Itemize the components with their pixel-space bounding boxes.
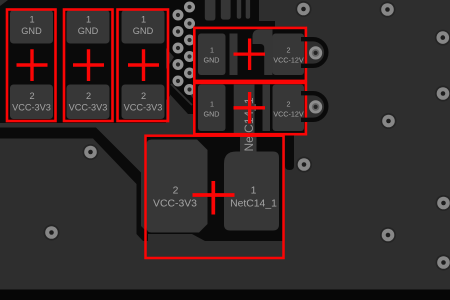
svg-text:2: 2 bbox=[141, 91, 146, 101]
via cluster column B bbox=[184, 2, 195, 96]
svg-text:1: 1 bbox=[210, 100, 214, 109]
origin cross C2 bbox=[73, 49, 104, 81]
svg-text:1: 1 bbox=[251, 186, 257, 197]
clearance void: central footprint C14 backdrop bbox=[145, 135, 284, 242]
via bbox=[296, 157, 312, 173]
connector J1-A pad 1 GND bbox=[198, 34, 226, 76]
courtyard C2 bbox=[64, 10, 113, 122]
trace NetC14_1 (J1 bottom to C14) bbox=[234, 85, 255, 134]
via bbox=[380, 2, 396, 18]
connector pin stub 4 bbox=[246, 0, 250, 19]
connector pin stub 2 bbox=[221, 0, 231, 20]
origin cross C14 bbox=[193, 181, 235, 215]
svg-text:GND: GND bbox=[133, 26, 154, 36]
svg-text:1: 1 bbox=[210, 46, 214, 55]
trace bar narrow (J1 top) bbox=[230, 34, 238, 76]
mounting hole pad ring B bbox=[309, 100, 322, 113]
via bbox=[436, 255, 450, 271]
svg-text:VCC-12V: VCC-12V bbox=[273, 55, 304, 64]
svg-text:2: 2 bbox=[29, 91, 34, 101]
C3 pad 1 label bbox=[133, 15, 154, 37]
courtyard C14 bbox=[146, 136, 284, 258]
C2 pad 2 label bbox=[69, 91, 108, 113]
capacitor C14 pad 2 VCC-3V3 bbox=[147, 140, 208, 233]
clearance void: top-left footprint block bbox=[0, 0, 170, 123]
C1 pad 1 label bbox=[21, 15, 42, 37]
svg-text:VCC-3V3: VCC-3V3 bbox=[12, 103, 51, 113]
via bbox=[44, 225, 60, 241]
via bbox=[380, 227, 396, 243]
svg-text:2: 2 bbox=[86, 91, 91, 101]
capacitor C2 pad 2 VCC-3V3 bbox=[67, 85, 110, 120]
pour sliver top-left corner bbox=[0, 0, 8, 6]
trace bar narrow (J1 bottom) bbox=[263, 85, 271, 132]
courtyard J1-B bbox=[194, 83, 306, 134]
svg-text:VCC-3V3: VCC-3V3 bbox=[124, 103, 163, 113]
connector pin stub 3 bbox=[237, 0, 241, 19]
J1-B pad 2 label bbox=[273, 100, 304, 119]
svg-text:1: 1 bbox=[141, 15, 146, 25]
svg-text:2: 2 bbox=[173, 186, 179, 197]
origin cross J1-B bbox=[234, 92, 266, 124]
C14 pad 1 label bbox=[230, 186, 277, 210]
capacitor C1 pad 2 VCC-3V3 bbox=[10, 85, 53, 120]
capacitor C14 pad 1 NetC14_1 bbox=[224, 152, 279, 231]
pour sliver in bundle diagonal bbox=[171, 84, 192, 105]
C14 pad 2 label bbox=[153, 186, 197, 210]
clearance void: trace bundle column right of C3 bbox=[166, 0, 196, 90]
via bbox=[381, 113, 397, 129]
origin cross C3 bbox=[128, 49, 159, 81]
connector pin stub 1 bbox=[205, 0, 216, 21]
clearance void: bundle diagonal into center area bbox=[166, 82, 196, 114]
trace NetC14_1 into pad bbox=[240, 133, 257, 155]
courtyard J1-A bbox=[194, 28, 306, 81]
J1-A pad 1 label bbox=[204, 46, 220, 65]
svg-text:GND: GND bbox=[21, 26, 42, 36]
connector J1-B pad 2 VCC-12V bbox=[273, 85, 305, 132]
pour sliver right of C3 bbox=[166, 48, 174, 69]
svg-text:VCC-3V3: VCC-3V3 bbox=[69, 103, 108, 113]
capacitor C3 pad 2 VCC-3V3 bbox=[122, 85, 165, 120]
pour gap: thick black band bottom-left bbox=[0, 128, 148, 242]
svg-text:GND: GND bbox=[204, 55, 220, 64]
svg-text:NetC14_1: NetC14_1 bbox=[230, 198, 277, 209]
svg-text:2: 2 bbox=[287, 46, 291, 55]
J1-A pad 2 label bbox=[273, 46, 304, 65]
clearance void: connector J1 interior bbox=[194, 27, 307, 134]
courtyard C3 bbox=[118, 10, 169, 122]
mounting hole outline A bbox=[301, 39, 326, 66]
pour gap: bottom black band bbox=[0, 290, 450, 300]
via cluster column A bbox=[173, 10, 184, 87]
origin cross J1-A bbox=[234, 39, 266, 71]
courtyard C1 bbox=[7, 10, 56, 122]
J1-B pad 1 label bbox=[204, 100, 220, 119]
svg-text:GND: GND bbox=[204, 109, 220, 118]
svg-text:1: 1 bbox=[29, 15, 34, 25]
via bbox=[435, 30, 450, 46]
connector J1-A pad 2 VCC-12V bbox=[273, 34, 305, 76]
origin cross C1 bbox=[17, 49, 48, 81]
clearance void: under wide top stub bbox=[259, 21, 275, 27]
C1 pad 2 label bbox=[12, 91, 51, 113]
C2 pad 1 label bbox=[78, 15, 99, 37]
capacitor C3 pad 1 GND bbox=[122, 10, 165, 44]
clearance void: column right of central courtyard bbox=[285, 131, 294, 170]
C3 pad 2 label bbox=[124, 91, 163, 113]
svg-text:1: 1 bbox=[86, 15, 91, 25]
svg-text:GND: GND bbox=[78, 26, 99, 36]
capacitor C1 pad 1 GND bbox=[10, 10, 53, 44]
svg-text:VCC-12V: VCC-12V bbox=[273, 109, 304, 118]
capacitor C2 pad 1 GND bbox=[67, 10, 110, 44]
trace bar wide NetC14_1 (J1 top) bbox=[253, 30, 273, 76]
svg-text:VCC-3V3: VCC-3V3 bbox=[153, 198, 197, 209]
clearance void: top stub strip above connector bbox=[196, 0, 259, 27]
via bbox=[296, 1, 312, 17]
mounting hole pad ring A bbox=[309, 46, 322, 59]
via bbox=[436, 195, 450, 211]
mounting hole outline B bbox=[301, 93, 326, 120]
connector J1-B pad 1 GND bbox=[198, 85, 226, 132]
via bbox=[435, 86, 450, 102]
via (isolated, pour) bbox=[83, 144, 99, 160]
svg-text:2: 2 bbox=[287, 100, 291, 109]
